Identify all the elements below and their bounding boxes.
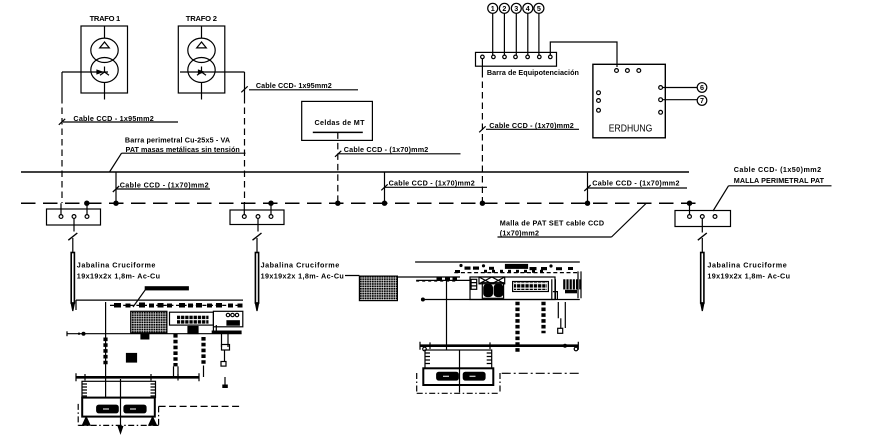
svg-text:4: 4 xyxy=(526,4,530,13)
svg-text:1: 1 xyxy=(491,4,495,13)
svg-text:2: 2 xyxy=(502,4,506,13)
svg-text:PAT masas metálicas sin tensió: PAT masas metálicas sin tensión xyxy=(126,145,240,154)
svg-text:Cable CCD- (1x50)mm2: Cable CCD- (1x50)mm2 xyxy=(734,165,821,174)
svg-text:Jabalina Cruciforme: Jabalina Cruciforme xyxy=(261,261,340,270)
svg-text:Jabalina Cruciforme: Jabalina Cruciforme xyxy=(707,261,786,270)
svg-text:Jabalina Cruciforme: Jabalina Cruciforme xyxy=(77,261,156,270)
svg-text:Barra de Equipotenciación: Barra de Equipotenciación xyxy=(487,68,579,77)
svg-text:Cable CCD - (1x70)mm2: Cable CCD - (1x70)mm2 xyxy=(389,179,475,188)
svg-text:MALLA PERIMETRAL PAT: MALLA PERIMETRAL PAT xyxy=(734,176,825,185)
svg-text:7: 7 xyxy=(700,96,704,105)
svg-text:Cable CCD - 1x95mm2: Cable CCD - 1x95mm2 xyxy=(73,114,153,123)
svg-text:Barra perimetral Cu-25x5 - VA: Barra perimetral Cu-25x5 - VA xyxy=(125,135,230,144)
svg-text:Cable CCD - (1x70)mm2: Cable CCD - (1x70)mm2 xyxy=(344,145,429,154)
svg-text:Cable CCD - (1x70)mm2: Cable CCD - (1x70)mm2 xyxy=(489,121,574,130)
svg-text:19x19x2x 1,8m- Ac-Cu: 19x19x2x 1,8m- Ac-Cu xyxy=(261,272,344,281)
svg-text:Cable CCD - (1x70)mm2: Cable CCD - (1x70)mm2 xyxy=(592,178,679,187)
svg-text:19x19x2x 1,8m- Ac-Cu: 19x19x2x 1,8m- Ac-Cu xyxy=(707,272,790,281)
svg-text:6: 6 xyxy=(700,83,704,92)
svg-text:Celdas de MT: Celdas de MT xyxy=(315,118,366,127)
svg-text:5: 5 xyxy=(537,4,541,13)
svg-text:TRAFO 1: TRAFO 1 xyxy=(90,14,121,23)
svg-text:TRAFO 2: TRAFO 2 xyxy=(186,14,217,23)
svg-text:Cable CCD- 1x95mm2: Cable CCD- 1x95mm2 xyxy=(256,81,332,90)
svg-text:Malla de PAT SET cable CCD: Malla de PAT SET cable CCD xyxy=(500,219,604,228)
svg-text:ERDHUNG: ERDHUNG xyxy=(609,124,653,135)
svg-text:(1x70)mm2: (1x70)mm2 xyxy=(500,228,539,237)
svg-text:19x19x2x 1,8m- Ac-Cu: 19x19x2x 1,8m- Ac-Cu xyxy=(77,272,160,281)
svg-text:3: 3 xyxy=(514,4,518,13)
svg-text:Cable CCD - (1x70)mm2: Cable CCD - (1x70)mm2 xyxy=(120,180,209,189)
